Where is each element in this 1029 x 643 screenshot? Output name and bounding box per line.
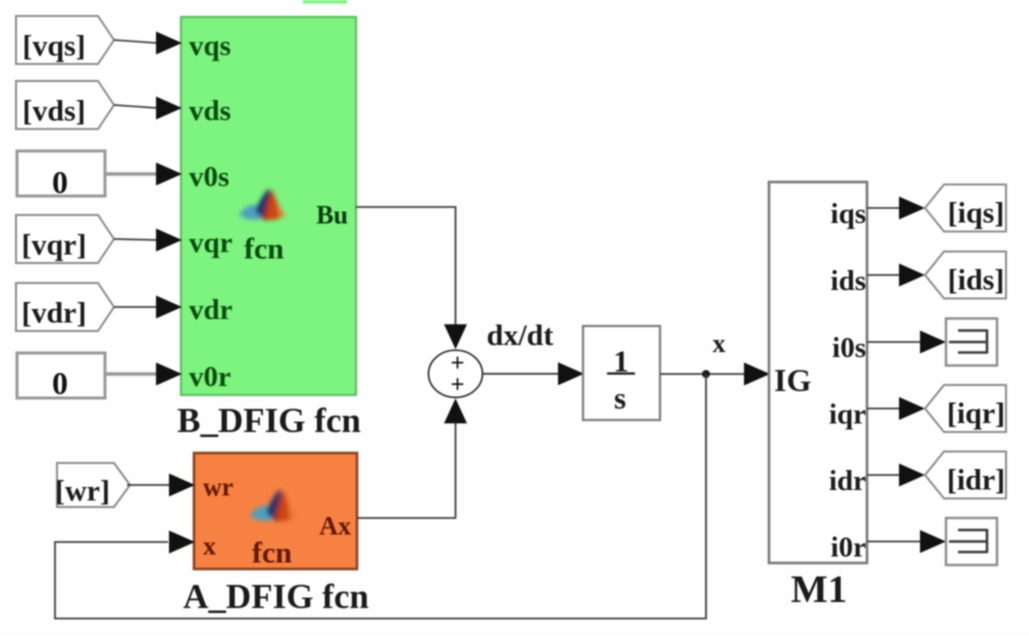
svg-text:[vdr]: [vdr] (22, 297, 87, 330)
svg-text:B_DFIG fcn: B_DFIG fcn (177, 401, 361, 440)
svg-text:[iqr]: [iqr] (947, 397, 1005, 430)
Goto tag [iqr] (925, 385, 1006, 432)
svg-text:vdr: vdr (189, 294, 233, 326)
Sum block (429, 350, 483, 399)
svg-text:+: + (450, 371, 464, 398)
svg-text:x: x (203, 532, 216, 561)
wire 0 to v0s port (105, 163, 182, 186)
Integrator block 1/s (583, 326, 660, 420)
From tag [vqr] (16, 215, 114, 263)
svg-text:x: x (713, 329, 726, 358)
wire wr to A_DFIG (127, 474, 195, 497)
wire to terminator (867, 331, 946, 354)
svg-text:0: 0 (52, 164, 68, 200)
MATLAB logo (B_DFIG) (239, 188, 286, 221)
wire iqs from M1 (867, 197, 925, 220)
wire iqr from M1 (867, 397, 925, 420)
svg-text:[idr]: [idr] (947, 464, 1005, 497)
cropped green block sliver at top edge (303, 0, 347, 4)
Goto tag [iqs] (925, 185, 1006, 232)
wire 0 to v0r port (105, 363, 182, 386)
svg-text:Ax: Ax (319, 512, 351, 541)
svg-text:IG: IG (774, 362, 811, 398)
svg-text:wr: wr (203, 473, 233, 502)
svg-text:vqr: vqr (189, 227, 233, 259)
Terminator block (946, 319, 997, 366)
MATLAB logo (A_DFIG) (250, 489, 297, 522)
svg-text:Bu: Bu (316, 201, 348, 230)
From tag [vdr] (16, 283, 114, 331)
svg-text:i0s: i0s (832, 332, 866, 364)
wire Bu output to Sum (down) (356, 207, 467, 349)
wire Ax output to Sum (up) (357, 398, 467, 518)
svg-text:[iqs]: [iqs] (948, 197, 1005, 230)
svg-text:fcn: fcn (244, 233, 284, 266)
wire vds to B_DFIG (114, 97, 182, 120)
From tag [vds] (16, 81, 114, 129)
svg-text:v0r: v0r (189, 361, 231, 393)
wire Sum to Integrator (483, 362, 585, 385)
Terminator block (946, 518, 997, 565)
svg-text:[vds]: [vds] (22, 95, 85, 128)
Constant block 0 (v0r) (17, 353, 105, 401)
svg-text:s: s (614, 381, 626, 416)
subsystem block M1 (IG) (769, 182, 867, 564)
Constant block 0 (v0s) (17, 151, 105, 200)
svg-text:vqs: vqs (189, 30, 231, 62)
svg-text:fcn: fcn (252, 537, 292, 570)
wire vqr to B_DFIG (114, 229, 182, 252)
svg-text:iqr: iqr (829, 399, 866, 431)
wire vqs to B_DFIG (114, 32, 182, 55)
svg-text:[vqr]: [vqr] (22, 229, 87, 262)
svg-text:dx/dt: dx/dt (487, 319, 554, 352)
wire idr from M1 (867, 464, 925, 487)
svg-text:iqs: iqs (831, 198, 866, 230)
wire Integrator to IG with junction (660, 363, 770, 386)
Goto tag [idr] (925, 452, 1006, 499)
From tag [wr] (55, 463, 130, 508)
wire ids from M1 (867, 264, 925, 287)
svg-text:vds: vds (189, 95, 231, 127)
svg-text:ids: ids (831, 265, 866, 297)
svg-text:[ids]: [ids] (948, 264, 1005, 297)
MATLAB Function block A_DFIG fcn (orange) (194, 453, 357, 570)
svg-text:i0r: i0r (831, 532, 867, 564)
junction node x (702, 370, 710, 378)
svg-text:0: 0 (52, 365, 68, 401)
svg-text:A_DFIG fcn: A_DFIG fcn (183, 577, 369, 616)
Goto tag [ids] (925, 252, 1006, 299)
svg-text:idr: idr (829, 465, 866, 497)
From tag [vqs] (16, 16, 114, 64)
wire to terminator (867, 530, 946, 553)
feedback wire x to A_DFIG (55, 374, 706, 619)
svg-text:v0s: v0s (189, 161, 229, 193)
svg-text:[vqs]: [vqs] (22, 30, 85, 63)
MATLAB Function block B_DFIG fcn (green) (181, 17, 356, 395)
svg-text:[wr]: [wr] (55, 475, 110, 508)
svg-text:M1: M1 (791, 568, 847, 611)
wire vdr to B_DFIG (114, 296, 182, 319)
